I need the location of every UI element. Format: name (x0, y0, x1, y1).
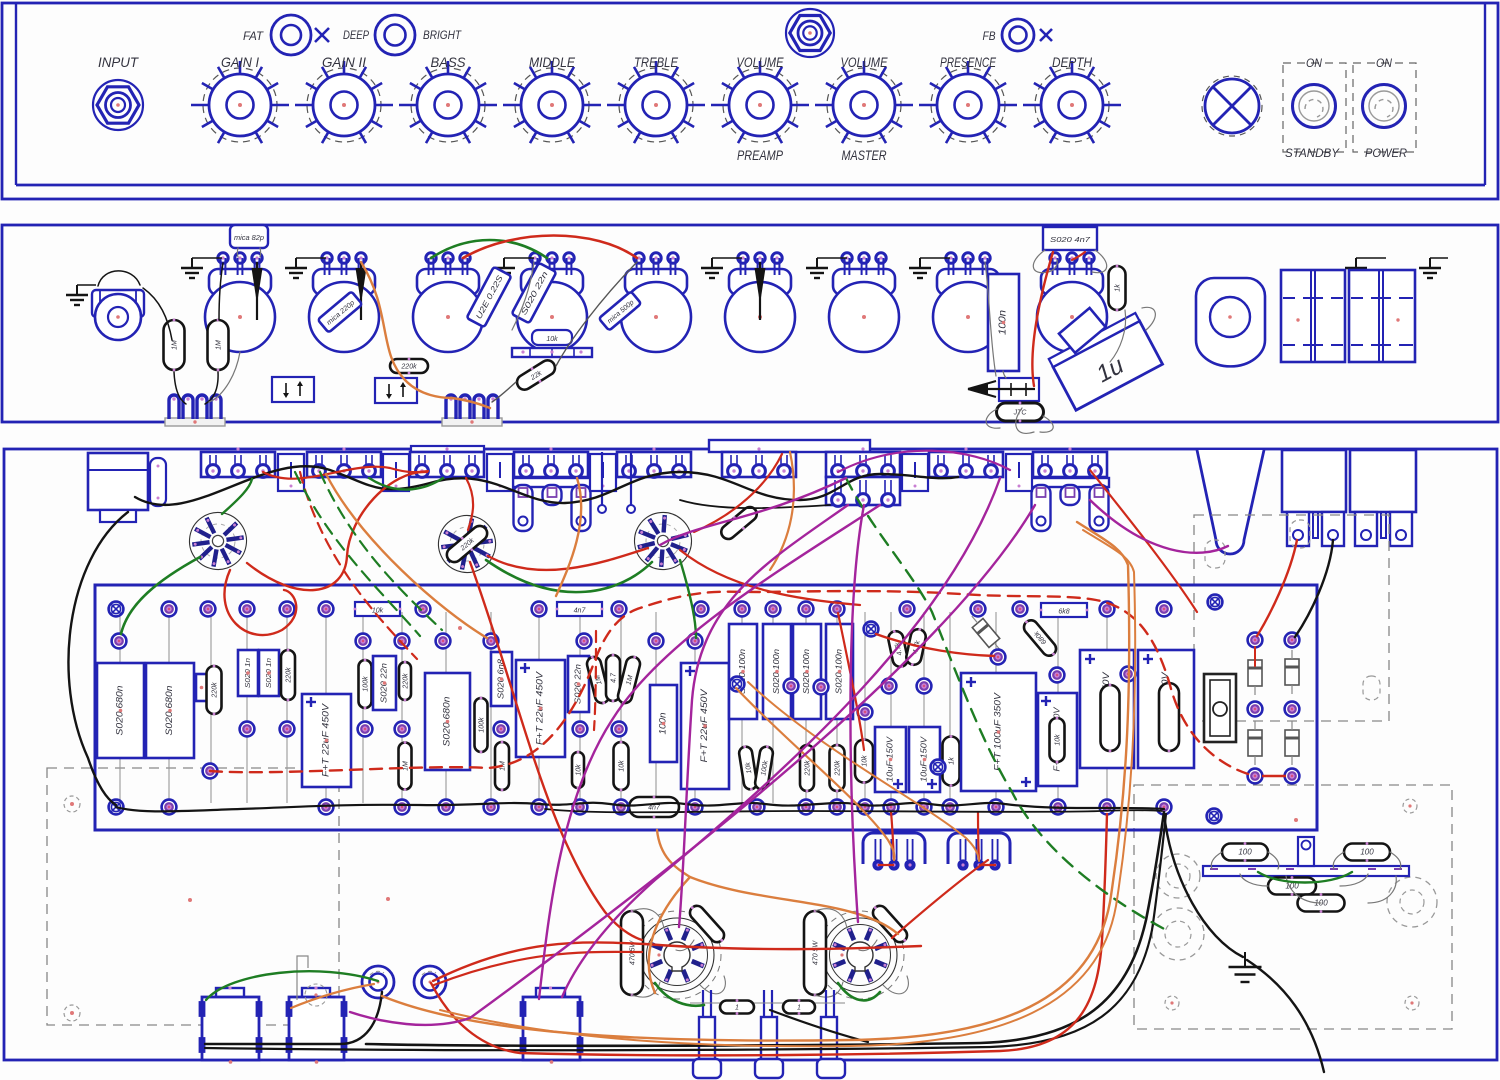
post A (362, 966, 394, 998)
resistor hres3 (1040, 603, 1089, 617)
wire orange strip2 (452, 398, 490, 408)
resistor 100k c (754, 744, 774, 791)
pot rear BASS 448 (413, 253, 483, 352)
turret bottom 491 (484, 800, 499, 815)
knob GAIN I 240 (191, 61, 289, 143)
wire green top small (369, 478, 443, 490)
ground lug 712 (701, 258, 723, 278)
turret top 1164 (1157, 602, 1172, 617)
standoff posts (702, 990, 704, 1016)
wire red V1 loop (224, 570, 296, 635)
cap C21 F+T 47uF 450V (1080, 650, 1134, 768)
input jack J1 (93, 80, 143, 130)
wire green V2-V3 (486, 560, 652, 592)
tube socket V1 (185, 508, 251, 574)
wire red BASS-V2 (466, 478, 473, 530)
rear panel frame (2, 225, 1498, 422)
svg-text:FAT: FAT (243, 29, 265, 43)
turret 889 686 (882, 679, 897, 694)
cap 1u end (1059, 308, 1106, 353)
V4 lead arcs (632, 909, 664, 928)
wire orange mid down (556, 478, 581, 596)
svg-text:100: 100 (1360, 848, 1374, 857)
wire dashed green b (320, 472, 442, 630)
svg-text:MASTER: MASTER (842, 147, 887, 163)
resistor 10k c (738, 744, 758, 791)
svg-text:mica 82p: mica 82p (234, 235, 264, 242)
standoff foot 1 (693, 1059, 721, 1078)
mount box C (999, 378, 1039, 401)
wire green V4 (655, 983, 704, 1006)
resistor on V2 (443, 522, 491, 566)
cap C7 S020 680n (425, 673, 470, 770)
diode D1 (966, 612, 1005, 655)
pot back GAIN I (201, 447, 275, 477)
wire purple 6 (350, 505, 1035, 1025)
wire red postB V4 b (434, 952, 642, 985)
resistor 100 a (1222, 842, 1268, 862)
ground lug 192 (181, 258, 203, 278)
mains dashed region (1194, 515, 1389, 721)
resistor 4.7k c (905, 626, 928, 667)
wire orange split b (690, 877, 898, 934)
mount turret 116 807 (109, 800, 124, 815)
wire red cn1 (878, 864, 894, 866)
cap C12 F+T 22uF 450V (681, 663, 729, 789)
wire red V5 up (892, 860, 988, 938)
resistor 10k a (572, 751, 584, 790)
turret bottom 539 (532, 800, 547, 815)
bracket 603 (590, 454, 616, 491)
svg-text:GAIN I: GAIN I (221, 54, 259, 70)
wire dashed red main (210, 591, 1248, 774)
cap mica 82p (230, 225, 268, 248)
cap C6 S020 22n (373, 656, 396, 710)
choke box 3 (521, 986, 583, 1063)
wire black pot8-jtc (985, 262, 996, 376)
fuse holder (1204, 674, 1236, 742)
svg-text:10k: 10k (576, 764, 583, 776)
wire black pot4 lead (512, 262, 534, 330)
ground lug 504 (493, 258, 515, 278)
knob GAIN II 344 (295, 61, 393, 143)
footswitch jack J2 (786, 9, 834, 57)
footswitch jack plate (709, 440, 870, 452)
resistor 10k b (614, 741, 629, 792)
mount hole bl (1165, 996, 1179, 1010)
wire purple 5 (562, 478, 1000, 997)
svg-text:1: 1 (797, 1005, 801, 1012)
switch block rear 1 (1281, 270, 1345, 362)
resistor 1R b (783, 999, 815, 1015)
resistor near V3 (718, 503, 761, 543)
turret 247 729 (240, 722, 255, 737)
wire black post diag (770, 1010, 868, 1042)
resistor 220k c (399, 661, 411, 702)
resistor 100k a (359, 659, 372, 710)
cap C19 F+T 100uF 350V (961, 673, 1036, 791)
pilot rear housing (1196, 278, 1265, 366)
turret bottom 1107 (1100, 800, 1115, 815)
long arrow (968, 381, 1035, 397)
cap C14 S020 100n (763, 624, 791, 719)
wire black left sweep (68, 512, 128, 805)
pot rear VOLUME 760 (725, 253, 795, 352)
resistor 1k a (943, 735, 960, 787)
turret bottom 865 (858, 800, 873, 815)
jack rear body (92, 290, 144, 317)
turret top 1020 (1013, 602, 1028, 617)
resistor 100 d (1298, 893, 1345, 913)
wire purple 8 (838, 451, 1010, 472)
turret bottom 924 (917, 800, 932, 815)
pilot lamp front (1202, 76, 1262, 136)
diode D2 (1248, 651, 1262, 695)
knob MIDDLE 552 (503, 61, 601, 143)
turret mid 656 (649, 634, 664, 649)
diode D4 (1248, 721, 1262, 765)
standoff foot 2 (755, 1059, 783, 1078)
output leads (1211, 852, 1222, 869)
cap S020 4n7 (1043, 227, 1097, 250)
mount box B (375, 378, 417, 403)
pot rear MIDDLE 552 (517, 253, 587, 352)
cap mica 220p (318, 291, 363, 332)
wire green V1 left (121, 557, 200, 634)
svg-text:220k: 220k (403, 673, 410, 690)
mica82p leads (236, 248, 239, 257)
turret mid 491 (484, 634, 499, 649)
mount turret 737 684 (730, 677, 745, 692)
mark dot 72 804 (70, 802, 74, 806)
svg-text:100k: 100k (479, 717, 486, 733)
pot rear PRESENCE 968 (933, 253, 1003, 352)
svg-text:STANDBY: STANDBY (1285, 146, 1340, 160)
wire green bass-mid (431, 240, 547, 258)
choke box 1 (200, 986, 262, 1063)
turret top 208 (201, 602, 216, 617)
pot rear TREBLE 656 (621, 253, 691, 352)
wire red pots run (263, 467, 428, 479)
standoff rail (690, 1002, 845, 1004)
svg-text:220k: 220k (212, 682, 219, 699)
wire black bottom row2 (545, 809, 1162, 812)
wire red hex-V3 (694, 454, 782, 532)
power dashed box (1353, 63, 1416, 152)
wire orange cross cn2 (748, 682, 979, 861)
wire red 4n7 down (1032, 252, 1053, 386)
pill 10k right (1109, 265, 1126, 312)
svg-text:4n7: 4n7 (648, 805, 661, 812)
cap C1 S020 680n (97, 663, 144, 758)
pot rear VOLUME 864 (829, 253, 899, 352)
mark dot 1296 820 (1294, 818, 1298, 822)
wire orange box2-postA (291, 984, 374, 1008)
turret top 619 (612, 602, 627, 617)
diode D3 (1285, 650, 1299, 694)
mount turret 938 767 (931, 760, 946, 775)
wire red V4-V5 (645, 944, 921, 949)
c22 inner pill (1159, 682, 1179, 753)
svg-text:10k: 10k (372, 608, 384, 615)
svg-text:S020 4n7: S020 4n7 (1050, 237, 1091, 244)
cap S020 22n pot3 (512, 263, 557, 324)
power socket V5 (816, 911, 904, 999)
standoff 3 (821, 1017, 837, 1059)
ground lug 1356 (1345, 258, 1367, 278)
resistor 1M b (495, 741, 509, 792)
pot back VOL MASTER dual (826, 447, 900, 506)
connector CN1 (863, 833, 925, 871)
resistor 1M c (585, 654, 611, 706)
wire red board to V4 (470, 562, 642, 940)
wire purple 2 (679, 505, 848, 927)
pot2 wiper arrow (356, 262, 367, 320)
svg-text:ON: ON (1306, 56, 1322, 70)
wire dashed red left (300, 472, 417, 659)
switch FB (1002, 19, 1034, 51)
mount turret 871 629 (864, 622, 879, 637)
knob VOLUME 760 (711, 61, 809, 143)
mount hole tr (1403, 799, 1417, 813)
standby dashed box (1283, 63, 1346, 152)
screen res V5 (869, 902, 911, 946)
wire purple 4 (539, 505, 880, 999)
wire orange pot2 down (326, 474, 487, 638)
jack inside (88, 453, 148, 510)
pot back TREBLE (617, 447, 691, 477)
switch FAT (271, 15, 311, 55)
svg-text:220k: 220k (400, 364, 417, 371)
post B (414, 966, 446, 998)
turret mid 119 (112, 634, 127, 649)
resistor 10k d (855, 738, 873, 784)
turret bottom 695 (688, 800, 703, 815)
bottom right dashed region (1134, 785, 1452, 1029)
ground lug 296 (285, 258, 307, 278)
resistor 100 b (1344, 842, 1390, 862)
1u lead loops (1016, 408, 1034, 433)
resistor 1R a (720, 999, 754, 1015)
mount circle a (64, 796, 80, 812)
svg-text:1M: 1M (216, 340, 223, 350)
cap black C 2 (208, 319, 229, 372)
wire green output (1258, 872, 1352, 883)
cap U2E 0.22 (467, 267, 512, 328)
resistor 1M a (399, 741, 412, 791)
wire red switch tab (1257, 540, 1297, 636)
svg-text:470 5W: 470 5W (813, 940, 820, 966)
box2 dashed circle (305, 984, 327, 1006)
wire green V5 (838, 983, 880, 1000)
turret 287 729 (280, 722, 295, 737)
svg-text:1k: 1k (949, 757, 956, 765)
turret top 169 (162, 602, 177, 617)
resistor 1M d (616, 654, 642, 706)
svg-text:TREBLE: TREBLE (634, 54, 679, 70)
wire black ground1 (1164, 814, 1243, 957)
switch back STANDBY (1282, 450, 1346, 512)
wire dashed green a (295, 472, 420, 636)
svg-text:100: 100 (1238, 848, 1252, 857)
wire black cap1-strip (174, 372, 186, 404)
resistor oval 4n7 (629, 796, 679, 819)
tube socket V2 (429, 506, 505, 582)
turret top 907 (900, 602, 915, 617)
cap C15 S020 100n (793, 624, 821, 719)
resistor 220k a (207, 665, 222, 716)
fb X mark (1040, 29, 1052, 41)
wire red long bottom (431, 814, 1107, 1055)
jack rear ground (66, 285, 88, 305)
wire black jack-cap (143, 288, 172, 340)
turret 501 729 (494, 722, 509, 737)
svg-text:1: 1 (735, 1005, 739, 1012)
svg-text:10k: 10k (546, 336, 558, 343)
pilot holder trapezoid (1197, 450, 1264, 554)
resistor 100 c (1268, 876, 1316, 896)
switch DEEP/BRIGHT (375, 15, 415, 55)
bottom left dashed region (47, 768, 339, 1025)
jtc lead loops (986, 409, 1000, 428)
wire red postB V4 (433, 942, 645, 981)
svg-text:100k: 100k (363, 676, 370, 692)
wire red bass-treble (463, 236, 637, 259)
turret top 1107 (1100, 602, 1115, 617)
bracket 291 (278, 454, 304, 491)
wire red V1-BASS (247, 472, 427, 590)
resistor 470 5W V4 (621, 910, 643, 997)
cap C16 S020 100n (826, 624, 853, 719)
cap C10 S020 22n (568, 656, 589, 712)
component leads (119, 612, 121, 803)
resistor 470 5W V5 (804, 910, 826, 997)
wire black 22k-strip2 (492, 382, 516, 402)
cap small MKC (196, 674, 207, 701)
pill JTC (997, 402, 1044, 423)
turret bottom 996 (989, 800, 1004, 815)
wire red cn2 (979, 864, 996, 866)
cap C3 S020 1n (238, 650, 258, 696)
wire red rect col (1254, 647, 1256, 666)
wire red 4n7 lug (1072, 252, 1085, 260)
svg-text:1M: 1M (172, 340, 179, 350)
switch lugs mid (601, 452, 603, 505)
cap C8 S020 6n8 (491, 652, 512, 706)
jack rear wire arc (98, 271, 140, 286)
standoff 1 (699, 1017, 715, 1059)
pot rear DEPTH 1072 (1037, 253, 1107, 352)
switch back POWER (1350, 450, 1416, 512)
turret top 287 (280, 602, 295, 617)
turret mid 584 (577, 634, 592, 649)
svg-text:BASS: BASS (431, 54, 467, 70)
pot rear GAIN I 240 (205, 253, 275, 352)
svg-text:4n7: 4n7 (574, 608, 587, 615)
terminal strip 1 (165, 395, 225, 426)
pot back GAIN II (307, 447, 381, 477)
choke box 2 (287, 986, 347, 1063)
pot rear GAIN II 344 (309, 253, 379, 352)
svg-text:BRIGHT: BRIGHT (423, 28, 462, 42)
standoff 2 (761, 1017, 777, 1059)
turret bottom 891 (884, 800, 899, 815)
switch POWER (1363, 85, 1406, 128)
svg-text:1M: 1M (403, 761, 410, 771)
turret top 701 (694, 602, 709, 617)
wire purple 7 (1090, 500, 1228, 553)
resistor 680k (1020, 616, 1060, 659)
resistor 4.7k a (606, 654, 620, 703)
cap C2 S020 680n (146, 663, 194, 758)
turret 365 729 (358, 722, 373, 737)
wire red 837 down (838, 613, 864, 750)
wire black long bottom b (366, 812, 1164, 1046)
turret 924 686 (917, 679, 932, 694)
svg-text:DEEP: DEEP (343, 28, 369, 42)
resistor 220k d (800, 744, 814, 793)
wire red rect jumper (1262, 775, 1286, 777)
wire black pot5-22k (556, 262, 637, 366)
V5 lead arcs (815, 909, 847, 928)
svg-text:PRESENCE: PRESENCE (940, 54, 996, 70)
turret mid 402 (395, 634, 410, 649)
wire black switch tab (1295, 540, 1333, 637)
mark dot 190 900 (188, 898, 192, 902)
switch plate pot4 (512, 348, 592, 357)
bracket 396 (383, 454, 409, 491)
turret top 539 (532, 602, 547, 617)
turret top 978 (971, 602, 986, 617)
screen res V4 (686, 902, 728, 946)
wire orange long right (382, 522, 1129, 1041)
wire orange split (649, 830, 690, 993)
output bracket (1298, 837, 1314, 866)
ground right edge (1419, 258, 1441, 278)
cap black C 1 (164, 319, 185, 372)
svg-text:INPUT: INPUT (98, 54, 139, 70)
svg-text:220k: 220k (286, 667, 293, 684)
turret bottom 326 (319, 800, 334, 815)
wire black top run b (680, 500, 830, 508)
resistor 10k bracket (532, 330, 572, 345)
switch block rear 2 (1349, 270, 1415, 362)
keyhole plate DEPTH (1031, 478, 1109, 531)
c21 inner pill (1101, 684, 1120, 753)
svg-text:6k8: 6k8 (1058, 609, 1069, 616)
resistor 220k e (830, 744, 845, 793)
svg-text:PREAMP: PREAMP (737, 147, 784, 163)
turret top 837 (830, 602, 845, 617)
turret bottom 402 (395, 800, 410, 815)
mark dot 72 1013 (70, 1011, 74, 1015)
turret mid 695 (688, 634, 703, 649)
pot back PRESENCE (929, 447, 1003, 477)
turret 791 686 (784, 679, 799, 694)
svg-text:VOLUME: VOLUME (737, 54, 785, 70)
cap C5 F+T 22uF 450V (302, 694, 351, 787)
dashed slot b (1363, 676, 1380, 700)
knob VOLUME 864 (815, 61, 913, 143)
turret bottom 621 (614, 800, 629, 815)
wire black top run (135, 466, 958, 505)
mount turret 1214 816 (1207, 809, 1222, 824)
wire orange long right b (440, 530, 1135, 1046)
switch STANDBY (1293, 85, 1336, 128)
diode D5 (1285, 721, 1299, 765)
resistor hres2 (556, 602, 604, 616)
turret rect 1255 709 (1248, 702, 1263, 717)
